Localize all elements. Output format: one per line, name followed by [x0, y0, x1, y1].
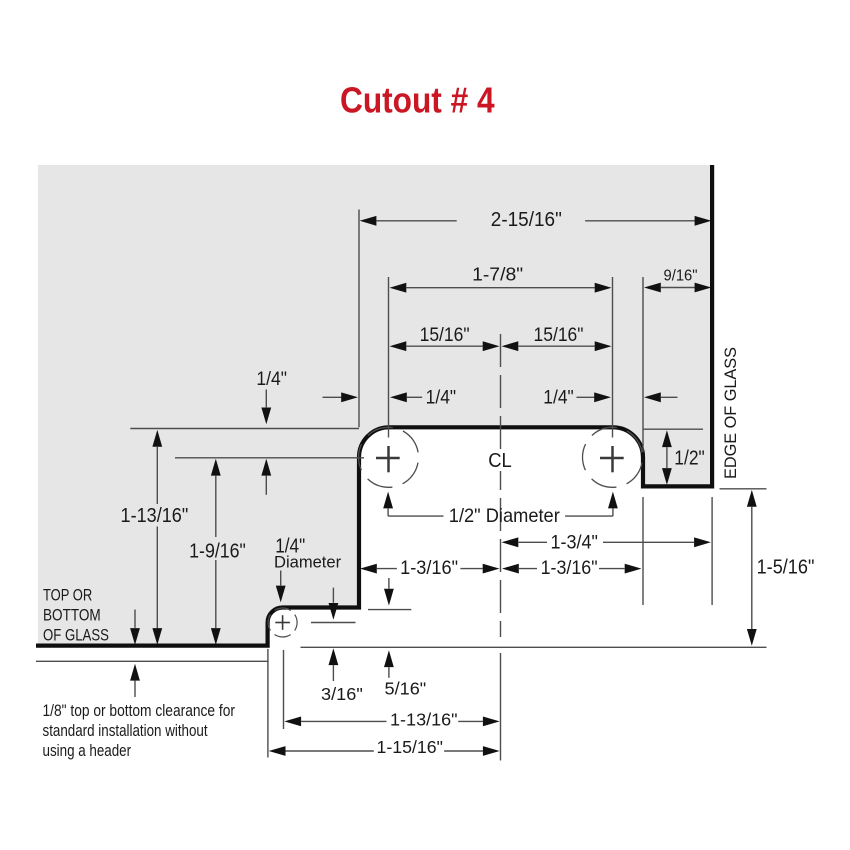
- svg-text:1/4": 1/4": [543, 387, 573, 409]
- svg-text:Diameter: Diameter: [274, 553, 342, 572]
- svg-text:1-3/16": 1-3/16": [541, 558, 598, 579]
- svg-text:15/16": 15/16": [420, 324, 470, 346]
- svg-text:1-15/16": 1-15/16": [377, 737, 443, 757]
- svg-text:EDGE OF GLASS: EDGE OF GLASS: [721, 347, 740, 479]
- svg-text:1-9/16": 1-9/16": [189, 541, 246, 563]
- svg-text:2-15/16": 2-15/16": [491, 209, 562, 231]
- svg-text:1/4": 1/4": [426, 387, 457, 409]
- svg-text:1/2": 1/2": [674, 448, 705, 470]
- svg-text:1-5/16": 1-5/16": [757, 556, 815, 578]
- svg-text:1/4": 1/4": [256, 368, 287, 390]
- svg-text:CL: CL: [488, 450, 512, 472]
- svg-text:1/8" top or bottom clearance f: 1/8" top or bottom clearance for: [43, 702, 236, 720]
- svg-text:1-3/4": 1-3/4": [550, 532, 598, 553]
- svg-text:1-7/8": 1-7/8": [472, 264, 523, 285]
- svg-text:15/16": 15/16": [534, 324, 584, 346]
- svg-text:Cutout # 4: Cutout # 4: [340, 81, 495, 121]
- svg-text:standard installation without: standard installation without: [43, 722, 208, 740]
- svg-text:1-13/16": 1-13/16": [121, 505, 189, 527]
- svg-text:3/16": 3/16": [321, 684, 363, 704]
- svg-text:OF GLASS: OF GLASS: [43, 626, 109, 644]
- svg-text:BOTTOM: BOTTOM: [43, 607, 101, 625]
- svg-text:TOP OR: TOP OR: [43, 587, 92, 605]
- svg-text:9/16": 9/16": [664, 267, 698, 284]
- svg-text:1-3/16": 1-3/16": [400, 558, 458, 579]
- svg-text:1/2" Diameter: 1/2" Diameter: [449, 505, 560, 527]
- svg-text:5/16": 5/16": [385, 679, 427, 699]
- svg-text:1-13/16": 1-13/16": [390, 710, 458, 730]
- svg-text:using a header: using a header: [43, 742, 132, 760]
